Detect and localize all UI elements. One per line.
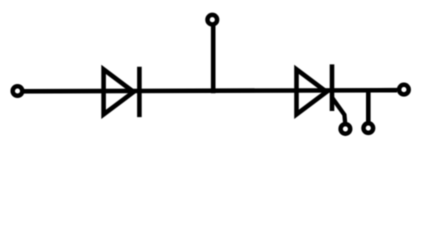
- gate terminal G (open circle): [341, 124, 351, 134]
- wire auxiliary cathode drop: [366, 91, 371, 122]
- thyristor gate lead: [332, 97, 346, 125]
- thyristor V1 cathode bar: [330, 64, 335, 111]
- terminal 2 (top, open circle): [208, 15, 218, 25]
- wire main horizontal A1 to K2: [22, 90, 398, 91]
- terminal 3 (right, open circle): [399, 85, 409, 95]
- diode D1 cathode bar: [137, 67, 142, 117]
- wire vertical to top terminal: [211, 25, 216, 94]
- thyristor V1 triangle (anode): [297, 69, 327, 114]
- diode D1 triangle (anode): [104, 69, 134, 114]
- terminal 1 (left, open circle): [13, 86, 23, 96]
- auxiliary cathode terminal (open circle): [364, 123, 374, 133]
